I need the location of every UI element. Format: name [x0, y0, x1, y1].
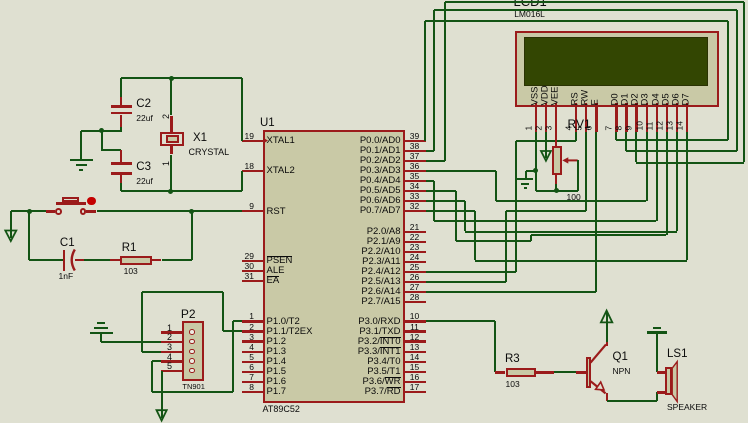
LCD1 pin 12 (D5) stub	[666, 103, 668, 132]
U1 pin 34 (P0.5/AD5) stub	[405, 190, 426, 192]
connector P2 TN901 body	[182, 321, 203, 382]
junction node reset left	[27, 209, 32, 214]
LCD1 value label LM016L	[514, 10, 545, 19]
U1 pin 10 (P3.0/RXD) stub	[405, 320, 426, 322]
RV1 top pin (to VEE)	[555, 132, 557, 146]
wire bottom rail to XTAL2	[121, 190, 242, 192]
wire VSS node to ground	[526, 170, 536, 172]
wire Q1 emitter to LS1	[607, 400, 658, 402]
RV1 value label 100	[567, 193, 581, 202]
wire top rail C2/X1 to XTAL1	[121, 77, 242, 79]
R1 value label 103	[124, 267, 138, 276]
junction node VSS/ground	[533, 168, 538, 173]
U1 pin 12 (P3.2/INT0) stub	[405, 340, 426, 342]
LCD1 pin 6 (E) stub	[595, 103, 597, 132]
LCD1 pin 14 (D7) stub	[686, 103, 688, 132]
capacitor C3	[120, 150, 122, 162]
U1 pin 23 (P2.2/A10) stub	[405, 251, 426, 253]
wire C3 to bottom rail	[120, 183, 122, 191]
wire ground to LS1 top terminal	[656, 334, 658, 372]
U1 pin 39 (P0.0/AD0) stub	[405, 140, 426, 142]
wire P3.0/RXD to R3	[426, 320, 496, 322]
P2 pin 3 circle	[189, 349, 195, 355]
P2 pin 1 circle	[189, 329, 195, 335]
junction node bottom rail / crystal	[168, 189, 173, 194]
LS1 value label SPEAKER	[667, 403, 707, 412]
U1 pin 1 (P1.0/T2) stub	[242, 320, 263, 322]
U1 pin 31 (EA) stub	[242, 280, 263, 282]
wire P0.7 to LCD D7	[426, 210, 475, 212]
speaker LS1	[665, 367, 672, 395]
U1 pin 28 (P2.7/A15) stub	[405, 301, 426, 303]
P2 pin 4 circle	[189, 358, 195, 364]
R3 value label 103	[506, 380, 520, 389]
LCD1 screen	[524, 37, 708, 86]
U1 pin 26 (P2.5/A13) stub	[405, 281, 426, 283]
C3 value label 22uf	[136, 177, 153, 186]
X1 value label CRYSTAL	[189, 148, 230, 157]
junction node top rail / crystal	[169, 76, 174, 81]
P2 pin 1 stub	[161, 331, 182, 333]
U1 pin 27 (P2.6/A14) stub	[405, 291, 426, 293]
wire ground to P2 pin 2	[100, 334, 102, 342]
U1 pin 18 (XTAL2) stub	[242, 170, 263, 172]
C2 value label 22uf	[136, 114, 153, 123]
LCD1 reference label	[514, 0, 547, 8]
LCD1 pin 3 (VEE) stub	[555, 103, 557, 132]
U1 pin 15 (P3.5/T1) stub	[405, 371, 426, 373]
wire down to C1	[28, 211, 30, 260]
wire P0.4 to LCD D4	[426, 180, 435, 182]
wire LS1 bottom terminal	[656, 392, 658, 401]
U1 pin 21 (P2.0/A8) stub	[405, 231, 426, 233]
R1 reference label	[122, 243, 137, 254]
U1 pin 5 (P1.4) stub	[242, 361, 263, 363]
wire C2 down to junction	[120, 127, 122, 132]
wire R3 to Q1 base	[554, 371, 576, 373]
potentiometer RV1 body	[552, 146, 562, 175]
wire junction jog to C3	[101, 131, 103, 151]
U1 pin 8 (P1.7) stub	[242, 391, 263, 393]
U1 pin 29 (PSEN) stub	[242, 260, 263, 262]
U1 pin 4 (P1.3) stub	[242, 351, 263, 353]
C2 reference label	[136, 99, 151, 110]
U1 pin 32 (P0.7/AD7) stub	[405, 210, 426, 212]
IC U1 AT89C52 microcontroller body	[263, 130, 405, 403]
wire button to RST pin	[86, 210, 96, 212]
U1 pin 6 (P1.5) stub	[242, 371, 263, 373]
wire wiper loop to pot bottom	[577, 160, 579, 190]
U1 pin 14 (P3.4/T0) stub	[405, 361, 426, 363]
C3 reference label	[136, 162, 151, 173]
LCD1 pin 4 (RS) stub	[575, 103, 577, 132]
LS1 reference label	[667, 349, 687, 360]
wire P0.1 to LCD D1 (wraps over top)	[426, 150, 435, 152]
U1 pin 22 (P2.1/A9) stub	[405, 241, 426, 243]
X1 reference label	[193, 133, 207, 144]
C1 value label 1nF	[59, 272, 74, 281]
wire P2 pin 3 to P1.1/T2EX	[142, 351, 162, 353]
U1 pin 17 (P3.7/RD) stub	[405, 391, 426, 393]
P2 pin 3 stub	[161, 351, 182, 353]
LCD1 pin 11 (D4) stub	[656, 103, 658, 132]
wire LCD RS to P2.4	[575, 132, 577, 141]
wire P0.6 to LCD D6	[426, 200, 466, 202]
crystal X1	[170, 78, 172, 115]
wire P2 pin 4 to P1.0/T2	[152, 360, 161, 362]
U1 pin 30 (ALE) stub	[242, 270, 263, 272]
U1 pin 2 (P1.1/T2EX) stub	[242, 330, 263, 332]
U1 pin 25 (P2.4/A12) stub	[405, 271, 426, 273]
wire LCD RW to P2.5	[585, 132, 587, 211]
wire R1 to RST rail	[152, 259, 162, 261]
junction node RST/R1	[189, 209, 194, 214]
U1 pin 11 (P3.1/TXD) stub	[405, 330, 426, 332]
capacitor C2	[120, 97, 122, 105]
U1 pin 24 (P2.3/A11) stub	[405, 261, 426, 263]
wire LCD VDD stub down	[545, 132, 547, 159]
P2 pin 5 circle	[189, 368, 195, 374]
U1 pin 19 (XTAL1) stub	[242, 140, 263, 142]
P2 pin 2 stub	[161, 341, 182, 343]
U1 pin 9 (RST) stub	[242, 210, 263, 212]
C1 reference label	[60, 238, 75, 249]
RV1 bottom pin	[555, 175, 557, 184]
U1 pin 36 (P0.3/AD3) stub	[405, 170, 426, 172]
capacitor C1	[63, 250, 66, 271]
resistor R1	[120, 256, 152, 265]
U1 pin 33 (P0.6/AD6) stub	[405, 200, 426, 202]
U1 reference label	[260, 118, 275, 129]
junction node pot bottom	[554, 188, 559, 193]
wire ground arrow to push button	[11, 210, 46, 212]
LCD1 pin 13 (D6) stub	[676, 103, 678, 132]
U1 value label AT89C52	[263, 405, 300, 414]
wire C1 to R1	[75, 259, 85, 261]
ground (near RV1)	[517, 178, 533, 180]
Q1 emitter wire down	[606, 393, 608, 401]
LCD1 pin 2 (VDD) stub	[545, 103, 547, 132]
wire junction to ground	[81, 130, 121, 132]
Q1 value label NPN	[613, 367, 631, 376]
resistor R3	[495, 371, 505, 373]
LCD1 pin 10 (D3) stub	[646, 103, 648, 132]
U1 pin 13 (P3.3/INT1) stub	[405, 351, 426, 353]
LCD1 pin 7 (D0) stub	[615, 103, 617, 132]
P2 value label TN901	[182, 383, 205, 391]
LCD1 pin 5 (RW) stub	[585, 103, 587, 132]
wire P2 pin 5 down to power arrow	[161, 371, 163, 418]
junction node ground tap	[99, 128, 104, 133]
ground (P2 pin 2)	[97, 322, 105, 324]
R3 reference label	[505, 354, 520, 365]
RV1 reference label	[568, 118, 591, 130]
P2 pin 4 stub	[161, 360, 182, 362]
U1 pin 37 (P0.2/AD2) stub	[405, 160, 426, 162]
Q1 reference label	[613, 352, 628, 363]
U1 pin 35 (P0.4/AD4) stub	[405, 180, 426, 182]
LCD1 pin 8 (D1) stub	[625, 103, 627, 132]
P2 pin 5 stub	[161, 370, 182, 372]
transistor Q1 NPN	[586, 357, 591, 388]
wire P0.0 to LCD D0 (wraps over top)	[424, 21, 426, 141]
LCD1 pin 1 (VSS) stub	[535, 103, 537, 132]
wire P0.2 to LCD D2 (wraps over top)	[426, 160, 445, 162]
P2 reference label	[181, 308, 196, 320]
Q1 collector wire and power arrow up	[606, 342, 608, 346]
U1 pin 3 (P1.2) stub	[242, 340, 263, 342]
wire LCD E to P2.6	[595, 132, 597, 292]
LCD1 pin 9 (D2) stub	[635, 103, 637, 132]
push button (reset)	[56, 202, 86, 205]
wire P0.3 to LCD D3	[426, 170, 497, 172]
ground (left of C2/C3)	[70, 159, 93, 161]
U1 pin 38 (P0.1/AD1) stub	[405, 150, 426, 152]
wire LCD VSS down to pot bottom node	[535, 132, 537, 191]
U1 pin 7 (P1.6) stub	[242, 381, 263, 383]
wire P0.5 to LCD D5	[426, 190, 457, 192]
ground (above LS1)	[653, 327, 661, 329]
U1 pin 16 (P3.6/WR) stub	[405, 381, 426, 383]
LCD LCD1 LM016L body	[515, 31, 720, 107]
P2 pin 2 circle	[189, 339, 195, 345]
